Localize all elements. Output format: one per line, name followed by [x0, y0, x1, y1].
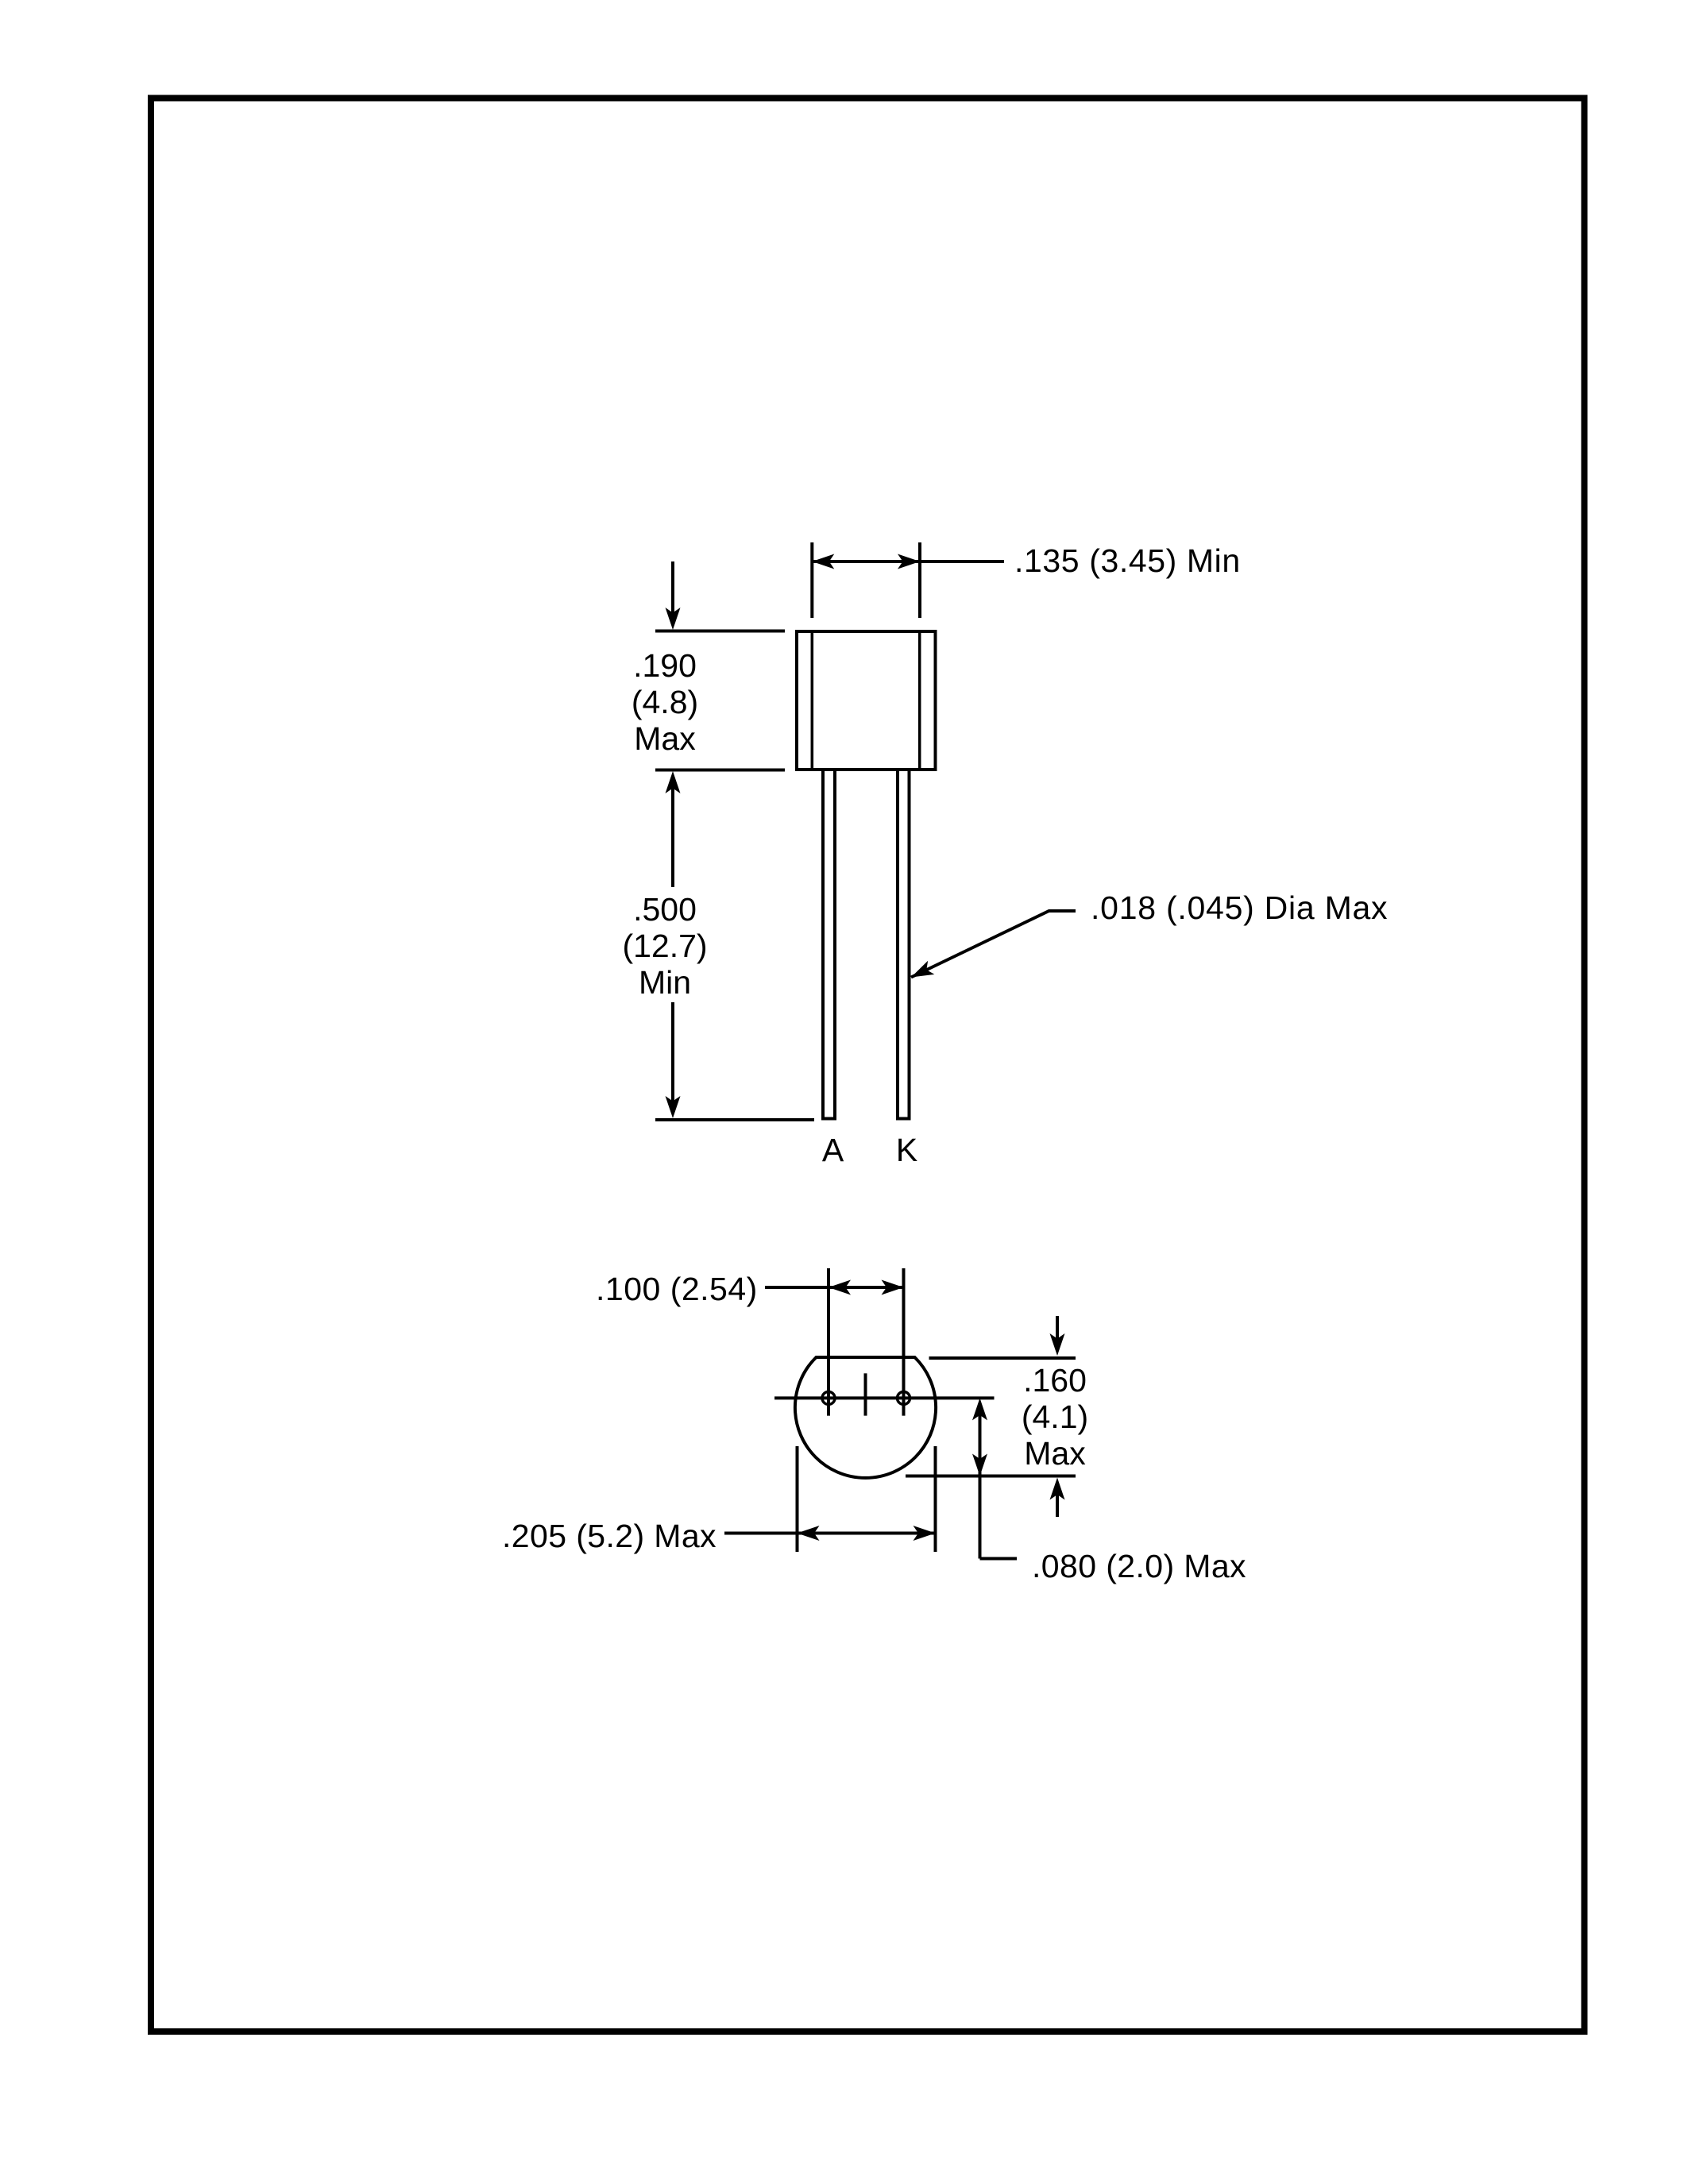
dim .135 dimension line: [812, 560, 1004, 563]
dim .205 arrow left: [798, 1526, 820, 1541]
dim .500 label: [622, 891, 707, 1001]
lead hole K (bottom view): [898, 1391, 910, 1404]
svg-text:Max: Max: [1024, 1435, 1086, 1472]
dim .100 extension line right: [902, 1268, 906, 1416]
dim .160 up arrow: [1050, 1478, 1065, 1518]
body inner line left: [811, 631, 814, 770]
svg-text:Min: Min: [639, 964, 691, 1001]
flat-top extension line (bottom view right): [929, 1356, 1076, 1360]
package body outline (front view): [797, 631, 936, 770]
dim .205 extension line left: [796, 1446, 799, 1552]
dim .100 arrow left: [829, 1280, 851, 1295]
svg-text:(12.7): (12.7): [622, 928, 707, 964]
lead A (left lead, front view): [823, 770, 835, 1119]
dim .190 label: [632, 647, 698, 757]
svg-text:.190: .190: [633, 647, 697, 684]
dim .100 dimension line: [765, 1286, 902, 1289]
svg-text:(4.1): (4.1): [1022, 1399, 1088, 1435]
bottom tangent line (bottom view): [906, 1475, 1076, 1478]
pin label K: [896, 1132, 917, 1168]
svg-text:.500: .500: [633, 891, 697, 928]
dim .135 arrow left: [812, 554, 834, 569]
border frame: [151, 98, 1585, 2032]
svg-text:A: A: [822, 1132, 844, 1168]
dim .205 arrow right: [914, 1526, 936, 1541]
leader .018 dia: [908, 911, 1076, 984]
dim .160 down arrow: [1050, 1316, 1065, 1356]
dim .018 label: [1091, 889, 1388, 926]
dim .500 bottom tick: [655, 1118, 814, 1121]
dim .135 extension line right: [918, 542, 921, 618]
svg-text:K: K: [896, 1132, 917, 1168]
dim .080 label: [1032, 1548, 1246, 1584]
dim .080 leader: [980, 1557, 1018, 1561]
svg-text:(4.8): (4.8): [632, 684, 698, 720]
lead K (right lead, front view): [898, 770, 910, 1119]
dim .135 label: [1014, 542, 1241, 579]
dim .190 top arrow: [666, 561, 681, 630]
dim .080 double arrow: [972, 1398, 987, 1558]
dim .190 bottom tick: [655, 769, 785, 772]
svg-text:.018 (.045) Dia Max: .018 (.045) Dia Max: [1091, 889, 1388, 926]
dim .100 label: [596, 1271, 758, 1307]
body inner line right: [918, 631, 921, 770]
center tick (bottom view): [864, 1373, 867, 1415]
dim .135 arrow right: [898, 554, 920, 569]
dim .190 top tick: [655, 630, 785, 633]
chord line through leads (bottom view): [774, 1396, 995, 1399]
dim .500 down arrow: [666, 1002, 681, 1118]
svg-text:.135 (3.45) Min: .135 (3.45) Min: [1014, 542, 1241, 579]
dim .160 label: [1022, 1362, 1088, 1472]
svg-text:.205 (5.2) Max: .205 (5.2) Max: [502, 1518, 717, 1554]
dim .205 dimension line: [724, 1532, 934, 1535]
dim .205 extension line right: [934, 1446, 937, 1552]
dim .100 extension line left: [827, 1268, 830, 1416]
dim .500 up arrow: [666, 771, 681, 887]
dim .100 arrow right: [882, 1280, 904, 1295]
dim .135 extension line left: [810, 542, 813, 618]
dim .205 label: [502, 1518, 717, 1554]
svg-text:.080 (2.0) Max: .080 (2.0) Max: [1032, 1548, 1246, 1584]
svg-text:.100 (2.54): .100 (2.54): [596, 1271, 758, 1307]
pin label A: [822, 1132, 844, 1168]
lead hole A (bottom view): [822, 1391, 835, 1404]
svg-text:.160: .160: [1023, 1362, 1087, 1399]
package outline (bottom view: circle with flat): [795, 1357, 936, 1478]
svg-text:Max: Max: [634, 720, 696, 757]
